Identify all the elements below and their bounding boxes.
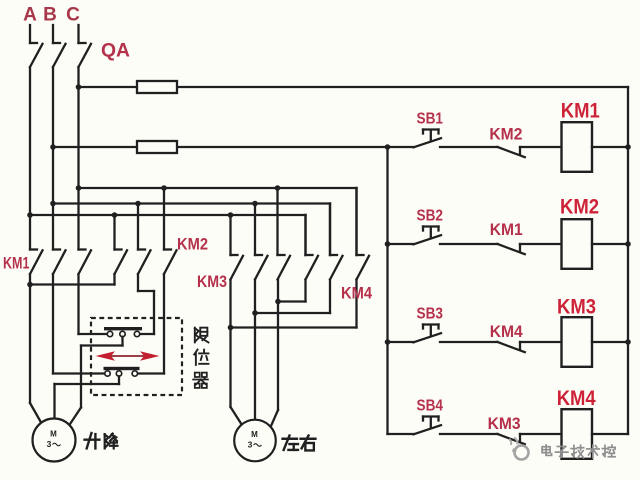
svg-text:KM3: KM3 [557,296,596,319]
svg-text:3: 3 [47,439,52,449]
svg-text:KM3: KM3 [197,272,227,291]
svg-text:KM2: KM2 [560,196,599,219]
svg-text:KM2: KM2 [177,235,208,254]
svg-text:KM4: KM4 [557,387,596,410]
svg-text:KM1: KM1 [561,100,600,123]
svg-text:3: 3 [248,440,253,450]
svg-text:SB1: SB1 [417,111,444,128]
svg-text:QA: QA [101,41,130,62]
svg-text:KM1: KM1 [3,254,30,273]
svg-text:M: M [251,430,258,439]
svg-text:B: B [43,5,57,26]
svg-text:C: C [66,5,80,26]
svg-text:SB3: SB3 [417,306,444,323]
svg-text:KM3: KM3 [488,415,521,433]
svg-text:A: A [23,5,37,26]
svg-text:KM4: KM4 [341,284,372,303]
svg-text:KM2: KM2 [489,126,522,144]
svg-text:KM4: KM4 [490,323,524,341]
svg-text:KM1: KM1 [490,221,523,239]
svg-text:M: M [50,430,57,439]
svg-text:SB2: SB2 [417,208,444,225]
svg-text:SB4: SB4 [417,398,444,415]
